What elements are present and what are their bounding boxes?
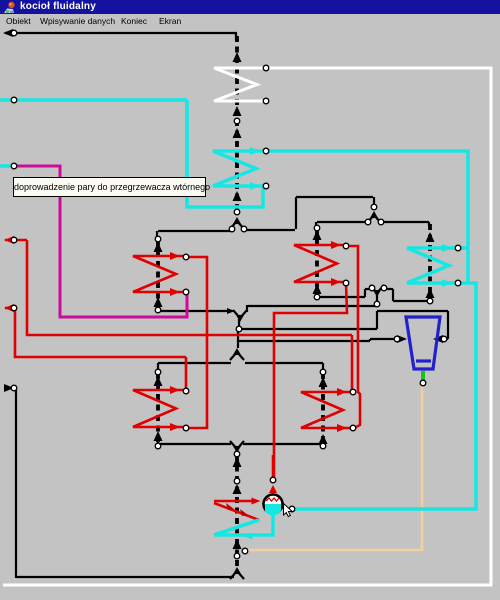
arrow: flue gas to stack (left) — [3, 29, 13, 37]
wire: turbine left feed y341 — [238, 340, 370, 342]
wire: red run E4 bottom to condenser — [274, 283, 347, 478]
node: E6 gas top — [320, 369, 326, 375]
wire: from node J4b — [386, 288, 393, 290]
node: J4 right — [381, 285, 387, 291]
wire: y363 header left arm — [158, 362, 231, 364]
arrow: gas up at E6 bottom — [319, 434, 328, 444]
arrow: red out left R1 — [4, 236, 14, 244]
junction Y7 — [230, 571, 244, 579]
gas duct G7 through air heater E8 — [235, 455, 239, 571]
arrow: gas up at E5 bottom — [154, 431, 163, 441]
node: E3 gas bottom — [155, 307, 161, 313]
junction Y6 — [230, 441, 244, 449]
wire: stub junction J4 to header y306 — [376, 294, 378, 302]
wire: cyan condenser outlet to E8 — [215, 514, 273, 535]
node: gas below Y6 — [234, 451, 240, 457]
wire: cyan stub at left edge y166 — [0, 164, 14, 168]
wire: stub to E4 top node — [315, 222, 317, 228]
wire: cyan from E2 top to E7 — [266, 151, 468, 282]
node: above condenser — [270, 477, 276, 483]
arrow: gas up out of E1 — [233, 106, 242, 116]
gas duct G2 through exchanger E3 — [156, 240, 160, 309]
wire: y444 gas header right — [243, 443, 323, 445]
wire: y329 link to turbine right feed — [238, 328, 377, 330]
arrow: red out left R2 — [4, 304, 14, 312]
node: J2 — [371, 204, 377, 210]
node: E5 gas bottom — [155, 443, 161, 449]
node: E3 steam bottom — [183, 289, 189, 295]
junction Y4 — [370, 285, 384, 293]
node: E1 bottom — [263, 98, 269, 104]
node: left edge gas exit — [11, 30, 17, 36]
turbine T1 (blue trapezoid) — [406, 317, 440, 369]
wire: stub E5 bottom — [157, 436, 159, 444]
arrow: steam into turbine left — [397, 335, 407, 343]
wire: red stub above condenser — [272, 455, 275, 478]
wire: drop to node J2 — [373, 197, 375, 206]
wire: jog up at x365 — [364, 289, 366, 297]
node: below turbine — [420, 380, 426, 386]
node: gas below E2 — [234, 209, 240, 215]
arrow: gas up into E8 — [233, 484, 242, 494]
node: E3 gas top — [155, 236, 161, 242]
gas duct G5 through exchanger E5 — [156, 373, 160, 443]
wire: flue-gas exit line to left edge — [5, 32, 237, 34]
wire: E3 gas bottom to junction J3 — [158, 310, 230, 312]
wire: header y222 to E7 column — [381, 221, 429, 223]
wire: red drop x352 to E6 top node — [351, 335, 354, 391]
arrow: gas up into E3 top — [154, 242, 163, 252]
wire: corner at x158 — [156, 231, 158, 238]
arrow: gas up below E2 — [233, 191, 242, 201]
arrow: gas up at E7 top — [426, 232, 435, 242]
wire: air inlet bottom run — [16, 576, 234, 578]
wire: E4 gas bottom header y297 — [317, 296, 365, 298]
wire: junction J3 to node J5 — [238, 319, 240, 327]
node: J4 stub on y306 — [374, 301, 380, 307]
wire: magenta steam supply to secondary superheater — [16, 166, 187, 317]
node: E4 steam bottom — [343, 280, 349, 286]
arrow: E3 bottom gas into J3 — [227, 308, 235, 314]
arrow: steam into turbine right — [433, 335, 443, 343]
tooltip label — [13, 177, 206, 197]
junction Y1: gas merge below E2 — [230, 221, 244, 229]
wire: cyan drop and run to E2 bottom — [187, 100, 263, 207]
arrow: gas up into E2 — [233, 128, 242, 138]
arrow: red into condenser from E8 — [252, 498, 261, 505]
node: turbine left inlet — [394, 336, 400, 342]
node: E4 gas top — [314, 225, 320, 231]
node: left edge air inlet — [11, 385, 17, 391]
arrow: cyan into E8 bottom line — [244, 533, 253, 540]
node: tan line end — [242, 548, 248, 554]
wire: red drop x187 to E5 top node — [185, 357, 188, 390]
heat exchanger E8 (air heater): red top / cyan bottom — [214, 500, 252, 503]
gas duct G6 through exchanger E6 — [321, 373, 325, 443]
arrow: red into condenser top — [269, 485, 277, 493]
node: E6 gas bottom — [320, 443, 326, 449]
wire: corner into E5 duct — [157, 363, 159, 372]
arrow: gas up at E4 top — [313, 230, 322, 240]
node: E2 top — [263, 148, 269, 154]
wire: corner into E6 duct — [322, 363, 324, 372]
heat exchanger E1 (economizer, white) — [214, 68, 264, 101]
app icon — [3, 1, 16, 14]
node: E5 steam bottom — [183, 425, 189, 431]
wire: corner into junction J3 — [246, 305, 248, 312]
node: E6 steam top — [350, 389, 356, 395]
node: E5 steam top — [183, 388, 189, 394]
node: left edge red R1 — [11, 237, 17, 243]
wire: cyan reheat inlet y100 — [0, 98, 187, 102]
wire: cyan stub into E7 top node — [458, 246, 468, 250]
node: E7 steam top — [455, 245, 461, 251]
node: E2 bottom — [263, 183, 269, 189]
node: E7 steam bottom — [455, 280, 461, 286]
wire: jog down at x393 — [392, 289, 394, 301]
junction Y2: gas merge at J2 — [367, 215, 381, 223]
wire: y363 header right arm — [245, 362, 323, 364]
node: E5 gas top — [155, 369, 161, 375]
node: left edge red R2 — [11, 305, 17, 311]
heat exchanger E2 (reheater, center) — [213, 151, 263, 186]
arrow: gas up into E1 — [233, 52, 242, 62]
wire: gas header y306 — [247, 305, 376, 307]
wire: y444 gas header left — [158, 443, 231, 445]
wire: into turbine right node — [443, 338, 448, 340]
node: left edge cyan — [11, 97, 17, 103]
node: E7 gas bottom — [427, 298, 433, 304]
junction Y3 — [233, 310, 247, 318]
heat exchanger E7 (reheater, right) — [407, 248, 455, 283]
mouse cursor — [284, 504, 293, 517]
wire: corner down to E1 — [235, 33, 237, 40]
arrow: gas up at E6 top — [319, 377, 328, 387]
node: left edge magenta feed — [11, 163, 17, 169]
heat exchanger E3 (superheater, upper-left) — [133, 256, 183, 292]
wire: E3 gas top to center junction J1 — [158, 230, 232, 232]
wire: red bypass x358 E4top-E6bottom — [346, 246, 360, 428]
node: gas above E8 — [234, 478, 240, 484]
gas duct G1: center column through E1/E2 — [235, 36, 239, 211]
wire: feed to E7 gas bottom node — [393, 300, 427, 302]
node: J2 right arm — [378, 219, 384, 225]
node: gas below E8 — [234, 553, 240, 559]
node: junction J1 left — [229, 226, 235, 232]
node: junction J1 right — [241, 226, 247, 232]
heat exchanger E4 (superheater, upper-right) — [294, 245, 344, 282]
wire: turbine right feed y311 — [377, 310, 448, 312]
wire: red bypass x207 E3top-E5bottom — [186, 257, 207, 428]
gas duct G3 through exchanger E4 — [315, 229, 319, 296]
window title bar — [0, 0, 500, 14]
heat exchanger E5 (superheater, lower-left) — [133, 390, 183, 427]
wire: red feed R2 from left edge — [5, 307, 15, 310]
wire: air inlet down left side — [15, 388, 17, 578]
generator link: green stub under turbine — [421, 371, 425, 381]
wire: corner into E7 gas duct — [428, 222, 430, 226]
arrow: gas up at E7 bottom — [426, 288, 435, 298]
wire: red feed R1 from left edge — [5, 239, 27, 242]
node: J5 center — [236, 326, 242, 332]
wire: top gas header y197 — [296, 196, 373, 198]
wire: drop at x448 — [447, 311, 449, 339]
node: E1 top — [263, 65, 269, 71]
gas duct G4 through exchanger E7 — [428, 224, 432, 299]
wire: to node J4a — [365, 288, 369, 290]
node: gas between E1/E2 — [234, 118, 240, 124]
arrow: air inlet — [4, 384, 14, 392]
wire: center junction J1 to riser x296 — [244, 229, 295, 231]
node: E4 gas bottom — [314, 294, 320, 300]
wire: stub E6 bottom — [322, 436, 324, 444]
wire: red run y357 — [15, 308, 186, 357]
wire: red main run y335 — [27, 240, 352, 335]
node: E3 steam top — [183, 254, 189, 260]
arrow: gas up below E8 — [233, 539, 242, 549]
node: turbine right inlet — [441, 336, 447, 342]
node: J2 left arm — [365, 219, 371, 225]
node: E4 steam top — [343, 243, 349, 249]
wire: jog — [369, 339, 371, 341]
wire: turbine left feed to node — [370, 338, 395, 340]
node: J4 left — [369, 285, 375, 291]
condenser C1 (circle with cooling water) — [264, 495, 283, 514]
wire: node J5 down to junction J6 — [237, 331, 239, 348]
junction Y5 — [230, 352, 244, 360]
wire: riser x296 — [295, 197, 297, 229]
wire: E4 gas top header y222 — [317, 221, 367, 223]
menu bar — [0, 14, 500, 28]
wire: air inlet stub at left edge — [5, 387, 16, 389]
node: E6 steam bottom — [350, 425, 356, 431]
arrow: gas up at E4 bottom — [313, 284, 322, 294]
arrow: gas up below Y6 — [233, 457, 242, 467]
wire: riser x377 — [376, 311, 378, 329]
heat exchanger E6 (superheater, lower-right) — [301, 392, 350, 428]
arrow: gas up into E3 bottom — [154, 297, 163, 307]
arrow: gas up at E5 top — [154, 376, 163, 386]
window title text — [20, 1, 96, 12]
wire: cyan from E7 bottom to condenser — [292, 283, 476, 509]
node: condenser cyan outlet — [289, 506, 295, 512]
wire: tan line from turbine down and left — [246, 386, 422, 550]
